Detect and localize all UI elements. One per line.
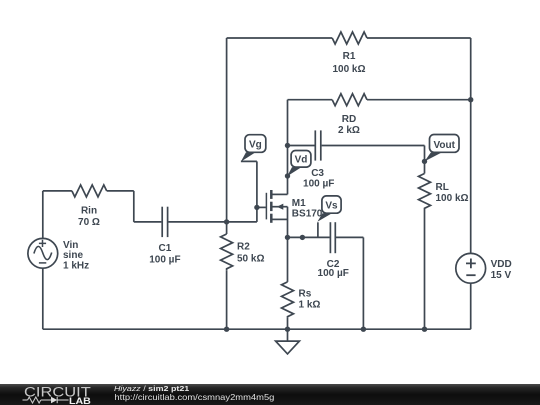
capacitor C3	[315, 130, 321, 160]
svg-text:1 kHz: 1 kHz	[63, 261, 89, 272]
svg-text:http://circuitlab.com/csmnay2m: http://circuitlab.com/csmnay2mm4m5g	[114, 392, 274, 402]
wire	[424, 211, 426, 330]
svg-text:1 kΩ: 1 kΩ	[299, 300, 321, 311]
wire	[42, 191, 44, 239]
node junction	[422, 159, 427, 164]
wire	[226, 270, 228, 329]
resistor R2	[221, 234, 233, 270]
wire	[287, 237, 289, 282]
svg-text:Vd: Vd	[295, 155, 308, 166]
resistor RD	[332, 94, 367, 106]
wire	[134, 221, 162, 223]
wire	[322, 145, 425, 147]
resistor RL	[419, 174, 431, 211]
svg-text:sine: sine	[63, 250, 83, 261]
wire	[287, 317, 289, 329]
svg-text:2 kΩ: 2 kΩ	[338, 125, 360, 136]
capacitor C2	[330, 222, 335, 253]
svg-text:Vout: Vout	[433, 140, 455, 151]
voltage source Vin	[28, 238, 58, 268]
node junction	[422, 327, 427, 332]
svg-text:100 µF: 100 µF	[318, 268, 349, 279]
wire	[470, 283, 472, 329]
wire	[288, 99, 333, 101]
svg-text:C1: C1	[159, 243, 172, 254]
svg-text:100 µF: 100 µF	[303, 179, 334, 190]
wire	[133, 191, 135, 222]
wire	[336, 236, 363, 238]
wire	[424, 146, 426, 174]
wire	[43, 190, 72, 192]
wire	[226, 38, 228, 222]
node junction	[468, 97, 473, 102]
svg-text:15 V: 15 V	[491, 270, 512, 281]
svg-text:R2: R2	[237, 241, 250, 252]
wire	[256, 161, 258, 222]
node junction	[285, 327, 290, 332]
node Vg callout	[241, 135, 266, 162]
node junction	[285, 143, 290, 148]
node junction	[224, 327, 229, 332]
wire	[317, 222, 319, 237]
wire	[241, 160, 257, 162]
wire	[287, 100, 289, 146]
wire	[362, 237, 364, 329]
node Vout callout	[425, 135, 460, 162]
svg-text:VDD: VDD	[491, 259, 512, 270]
node Vs callout	[317, 196, 341, 222]
node junction	[285, 173, 290, 178]
wire	[367, 37, 471, 39]
transistor M1	[266, 190, 287, 237]
logo CircuitLab	[23, 384, 91, 405]
wire	[257, 206, 266, 208]
node junction	[300, 235, 305, 240]
svg-text:Vs: Vs	[325, 200, 338, 211]
node junction	[224, 219, 229, 224]
svg-text:50 kΩ: 50 kΩ	[237, 254, 264, 265]
svg-text:Rin: Rin	[81, 206, 97, 217]
node junction	[254, 205, 259, 210]
wire	[288, 145, 315, 147]
svg-text:100 kΩ: 100 kΩ	[436, 193, 469, 204]
svg-text:RD: RD	[342, 114, 356, 125]
svg-text:C3: C3	[311, 168, 324, 179]
svg-text:RL: RL	[436, 182, 449, 193]
svg-text:70 Ω: 70 Ω	[78, 217, 100, 228]
wire	[288, 236, 330, 238]
wire	[367, 99, 471, 101]
resistor R1	[332, 32, 367, 44]
ground	[276, 329, 300, 354]
svg-text:100 µF: 100 µF	[149, 254, 180, 265]
svg-text:Vg: Vg	[249, 139, 262, 150]
svg-text:Rs: Rs	[299, 288, 312, 299]
wire	[470, 38, 472, 253]
resistor Rs	[282, 282, 294, 318]
wire	[168, 221, 257, 223]
wire	[226, 222, 228, 234]
svg-text:M1: M1	[292, 198, 306, 209]
resistor Rin	[72, 185, 107, 197]
wire	[107, 190, 134, 192]
wire	[287, 146, 289, 195]
svg-text:LAB: LAB	[69, 396, 91, 405]
capacitor C1	[162, 207, 167, 237]
wire	[43, 328, 471, 330]
svg-text:100 kΩ: 100 kΩ	[332, 64, 365, 75]
wire	[227, 37, 333, 39]
node Vd callout	[287, 151, 311, 177]
svg-text:R1: R1	[343, 51, 356, 62]
node junction	[285, 235, 290, 240]
wire	[42, 268, 44, 329]
node junction	[361, 327, 366, 332]
svg-text:BS170: BS170	[292, 209, 323, 220]
voltage source VDD	[456, 253, 486, 283]
